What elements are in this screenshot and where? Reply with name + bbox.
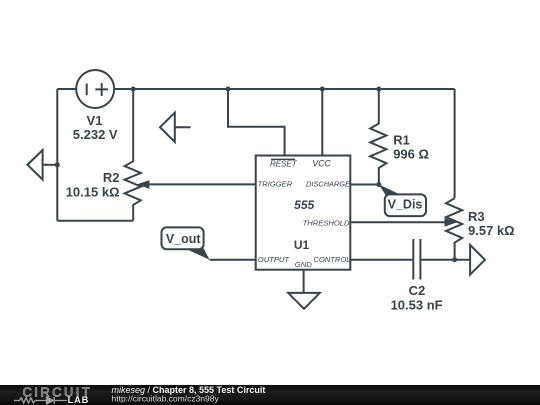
svg-text:9.57 kΩ: 9.57 kΩ — [468, 223, 515, 238]
ground — [288, 293, 320, 309]
potentiometer R2 — [125, 89, 141, 221]
svg-text:996 Ω: 996 Ω — [393, 147, 429, 162]
wire: OUTPUT pin — [210, 259, 256, 261]
bottom attribution bar — [0, 385, 540, 405]
svg-text:5.232 V: 5.232 V — [73, 127, 118, 142]
junction dot VCC rail — [320, 87, 325, 92]
junction dot RESET rail — [226, 87, 231, 92]
svg-text:OUTPUT: OUTPUT — [258, 255, 291, 264]
svg-text:10.53 nF: 10.53 nF — [391, 298, 443, 313]
svg-text:U1: U1 — [294, 238, 310, 252]
junction dot R3 bottom — [452, 257, 457, 262]
svg-text:V_Dis: V_Dis — [388, 198, 423, 212]
svg-text:C2: C2 — [409, 283, 426, 298]
net arrow right — [470, 245, 485, 275]
junction dot R1 top — [376, 87, 381, 92]
svg-text:RESET: RESET — [270, 159, 298, 168]
resistor R1 — [370, 89, 386, 185]
svg-text:CONTROL: CONTROL — [313, 255, 350, 264]
potentiometer R3 — [446, 198, 462, 259]
wire: R2 wiper to TRIGGER — [148, 183, 256, 185]
wire: right rail down to R3 — [454, 89, 456, 198]
junction dot R2 top — [131, 87, 136, 92]
wire: CONTROL right of C2 — [421, 259, 470, 261]
svg-text:V_out: V_out — [166, 232, 202, 246]
net flag V_out — [162, 227, 210, 259]
wire: left vertical rail — [56, 89, 58, 221]
attribution text — [108, 385, 540, 405]
svg-text:DISCHARGE: DISCHARGE — [306, 180, 350, 189]
voltage source V1 — [76, 70, 114, 108]
svg-text:R3: R3 — [468, 209, 485, 224]
svg-text:TRIGGER: TRIGGER — [258, 180, 293, 189]
svg-text:GND: GND — [295, 260, 313, 269]
junction dot left rail — [55, 162, 60, 167]
svg-text:R2: R2 — [103, 170, 120, 185]
junction dot R1 bottom — [376, 182, 381, 187]
capacitor C2 — [413, 239, 420, 280]
svg-text:R1: R1 — [393, 132, 410, 147]
net flag V_Dis — [379, 185, 426, 217]
wire: rail to RESET pin — [228, 89, 285, 156]
R3 wiper arrow — [445, 218, 458, 227]
wire: rail to VCC pin — [321, 89, 323, 156]
wire: top rail V1 to right corner — [114, 88, 454, 90]
svg-text:http://circuitlab.com/cz3n98y: http://circuitlab.com/cz3n98y — [112, 394, 220, 404]
svg-text:VCC: VCC — [312, 158, 331, 168]
wire: GND pin lead — [303, 270, 305, 293]
R2 wiper arrow — [137, 180, 150, 189]
CircuitLab logo — [0, 385, 110, 405]
wire: DISCHARGE to R1 bottom — [350, 184, 379, 186]
pin label RESET (with overline) — [270, 159, 298, 168]
svg-text:LAB: LAB — [68, 395, 90, 405]
net arrow left — [28, 150, 58, 180]
wire: THRESHOLD to R3 wiper — [350, 221, 446, 223]
wire: CONTROL left of C2 — [350, 259, 412, 261]
svg-text:555: 555 — [294, 198, 314, 212]
wire: bottom left segment to R2 — [57, 220, 133, 222]
net arrow middle — [160, 113, 191, 142]
IC U1 555 — [256, 156, 351, 270]
svg-text:10.15 kΩ: 10.15 kΩ — [66, 184, 120, 199]
svg-text:THRESHOLD: THRESHOLD — [303, 218, 350, 227]
wire: V1 left lead — [57, 88, 76, 90]
svg-text:V1: V1 — [87, 113, 103, 128]
